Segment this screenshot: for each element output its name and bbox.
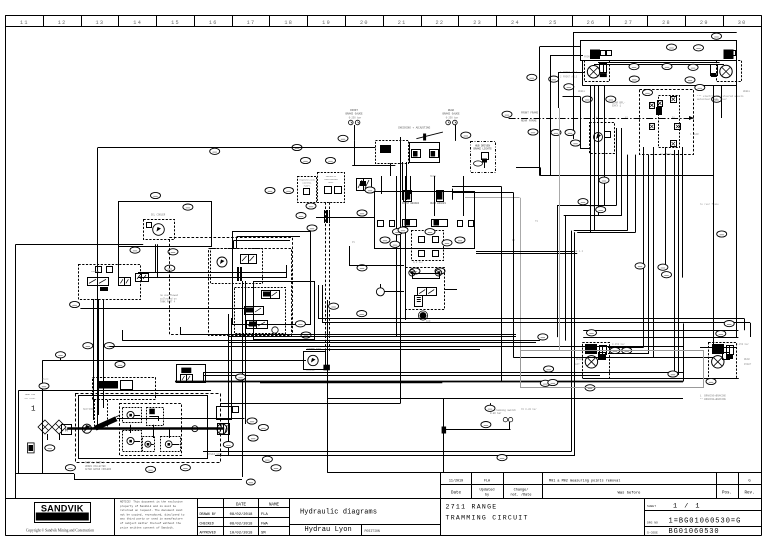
svg-text:1 REAR: 1 REAR	[690, 133, 699, 136]
svg-text:1: 1	[31, 406, 36, 414]
svg-text:of subject matter thereof with: of subject matter thereof without the	[120, 521, 181, 525]
svg-text:08/02/2018: 08/02/2018	[230, 512, 254, 517]
svg-text:BG01060530: BG01060530	[669, 528, 720, 536]
svg-text:REAR: REAR	[576, 358, 582, 361]
svg-text:REAR FRAME: REAR FRAME	[521, 120, 537, 123]
svg-text:TRAMMING CIRCUIT: TRAMMING CIRCUIT	[446, 515, 529, 522]
svg-text:NAME: NAME	[269, 503, 280, 507]
svg-text:FLA: FLA	[484, 479, 491, 483]
svg-text:T1 BRAKE: T1 BRAKE	[660, 153, 672, 156]
svg-text:20: 20	[360, 20, 369, 26]
svg-text:TANK PART 4: TANK PART 4	[160, 301, 176, 304]
svg-text:DRAWN BY: DRAWN BY	[200, 513, 216, 517]
svg-text:Was before: Was before	[618, 491, 642, 496]
svg-text:Date: Date	[451, 492, 462, 496]
svg-text:M01 a M02 measuring points rem: M01 a M02 measuring points removal	[549, 478, 620, 483]
svg-text:to rear frame: to rear frame	[700, 203, 719, 206]
svg-text:19: 19	[322, 20, 331, 26]
svg-text:FRONT BRAKES: FRONT BRAKES	[402, 202, 420, 205]
svg-text:NOTICE! This document is the e: NOTICE! This document is the exclusive	[120, 500, 183, 504]
svg-text:UNIT: UNIT	[328, 181, 334, 184]
svg-text:0-80 bar: 0-80 bar	[490, 412, 502, 415]
svg-text:2 FRONT AXLE: 2 FRONT AXLE	[560, 76, 578, 79]
svg-text:2711 RANGE: 2711 RANGE	[446, 504, 498, 511]
svg-text:Pos.: Pos.	[722, 492, 732, 496]
svg-text:POSITION: POSITION	[365, 529, 380, 533]
svg-text:18: 18	[284, 20, 293, 26]
svg-text:15: 15	[171, 20, 180, 26]
svg-text:WHEEL: WHEEL	[578, 90, 586, 93]
svg-text:MAIN: MAIN	[430, 175, 436, 178]
svg-text:OIL LEVEL: OIL LEVEL	[25, 397, 37, 400]
svg-text:prior written consent of Sandv: prior written consent of Sandvik.	[120, 525, 174, 529]
svg-text:GXXY 1: GXXY 1	[612, 105, 622, 108]
svg-text:SM: SM	[261, 531, 266, 535]
svg-text:any third party or used in man: any third party or used in manufacture	[120, 517, 183, 521]
svg-text:29: 29	[700, 20, 709, 26]
svg-text:Change/: Change/	[514, 488, 529, 493]
svg-text:Rev.: Rev.	[744, 492, 754, 496]
svg-text:TANK TOP: TANK TOP	[25, 393, 36, 396]
svg-text:11: 11	[20, 20, 29, 26]
svg-text:30: 30	[738, 20, 747, 26]
svg-text:Hydrau Lyon: Hydrau Lyon	[305, 526, 352, 534]
svg-text:OIL COOLER: OIL COOLER	[151, 214, 166, 217]
svg-text:TOWING: TOWING	[91, 270, 100, 273]
svg-text:22: 22	[435, 20, 444, 26]
svg-text:16: 16	[209, 20, 218, 26]
svg-text:24: 24	[511, 20, 520, 26]
svg-text:13: 13	[96, 20, 105, 26]
svg-text:REAR: REAR	[744, 358, 750, 361]
svg-text:CHECKING + ADJUSTING: CHECKING + ADJUSTING	[398, 127, 431, 130]
svg-text:not. /Date: not. /Date	[510, 492, 531, 497]
svg-text:1 / 1: 1 / 1	[673, 502, 701, 510]
svg-text:CHARGE PUMP: CHARGE PUMP	[307, 347, 322, 350]
svg-text:DRG NO: DRG NO	[647, 522, 658, 525]
svg-text:FRONT FRAME: FRONT FRAME	[521, 112, 539, 115]
svg-text:FWA: FWA	[261, 522, 269, 526]
svg-text:0-450 bar: 0-450 bar	[736, 343, 749, 346]
svg-text:** BRAKING+BRAKING: ** BRAKING+BRAKING	[700, 398, 726, 401]
svg-text:SHEET: SHEET	[647, 505, 656, 508]
svg-text:DATE: DATE	[236, 503, 247, 507]
svg-text:property of Sandvik and is mus: property of Sandvik and is must be	[120, 504, 176, 508]
svg-text:CHECKED: CHECKED	[200, 522, 214, 526]
svg-text:AFTER WATER COOLERS: AFTER WATER COOLERS	[85, 468, 112, 471]
svg-text:10/02/2018: 10/02/2018	[230, 530, 254, 535]
svg-text:12: 12	[58, 20, 67, 26]
svg-text:14: 14	[133, 20, 142, 26]
svg-text:RIGHT: RIGHT	[744, 363, 752, 366]
svg-text:BRAKE GAUGE: BRAKE GAUGE	[345, 112, 363, 115]
svg-text:26: 26	[587, 20, 596, 26]
svg-text:0-250 bar: 0-250 bar	[349, 116, 362, 119]
svg-text:PUMPS: PUMPS	[304, 184, 311, 187]
svg-text:SUCTION: SUCTION	[83, 408, 94, 411]
svg-text:25: 25	[549, 20, 558, 26]
svg-text:APPROVED: APPROVED	[200, 531, 216, 535]
svg-text:1=BG01060530=G: 1=BG01060530=G	[669, 518, 742, 526]
svg-text:autosteer high lever: autosteer high lever	[697, 98, 728, 101]
svg-text:S-CODE: S-CODE	[647, 531, 658, 534]
svg-text:Copyright © Sandvik Mining and: Copyright © Sandvik Mining and Construct…	[26, 528, 94, 533]
svg-text:SANDVIK: SANDVIK	[41, 504, 84, 514]
svg-text:23: 23	[473, 20, 482, 26]
svg-text:not be copied, reproduced, dis: not be copied, reproduced, disclosed to	[120, 512, 185, 516]
svg-text:21: 21	[398, 20, 407, 26]
svg-text:28: 28	[662, 20, 671, 26]
svg-text:1 BRAKING+BRAKING: 1 BRAKING+BRAKING	[700, 395, 726, 398]
svg-text:REAR BRAKES: REAR BRAKES	[430, 202, 446, 205]
svg-text:Hydraulic diagrams: Hydraulic diagrams	[300, 509, 377, 517]
svg-text:27: 27	[624, 20, 633, 26]
svg-text:DRAIN: DRAIN	[42, 378, 49, 381]
svg-text:0-250 bar: 0-250 bar	[446, 116, 459, 119]
svg-text:X3 0-80 bar: X3 0-80 bar	[521, 408, 537, 411]
svg-text:0,8 bar: 0,8 bar	[413, 261, 424, 264]
svg-text:returned on request. The docum: returned on request. The document must	[120, 508, 183, 512]
svg-text:BRAKE LIGHTS: BRAKE LIGHTS	[473, 148, 492, 151]
svg-text:17: 17	[247, 20, 256, 26]
svg-text:08/02/2018: 08/02/2018	[230, 521, 254, 526]
svg-text:FLA: FLA	[261, 513, 269, 517]
svg-text:11/2019: 11/2019	[449, 478, 463, 483]
svg-text:WHEEL: WHEEL	[743, 90, 751, 93]
svg-text:Updated: Updated	[479, 488, 494, 493]
svg-text:BRAKE GAUGE: BRAKE GAUGE	[442, 112, 460, 115]
svg-text:0-450 bar: 0-450 bar	[612, 343, 625, 346]
